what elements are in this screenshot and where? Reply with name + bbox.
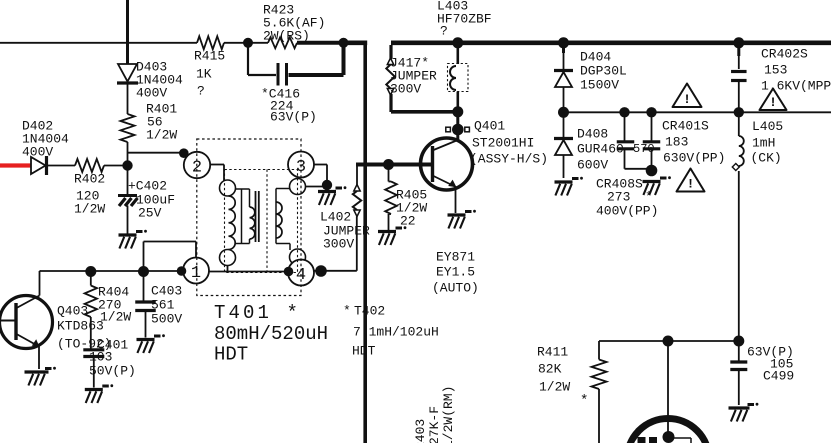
svg-text:HDT: HDT <box>214 344 248 366</box>
resistor R415 <box>194 36 225 98</box>
svg-text:R411: R411 <box>537 345 568 360</box>
wire node to C402 <box>127 166 129 196</box>
wire thick vertical bus <box>363 41 367 443</box>
svg-text:DGP30L: DGP30L <box>580 64 627 79</box>
jumper J417 <box>386 45 437 112</box>
label T402 <box>343 304 439 359</box>
svg-text:400V: 400V <box>136 86 167 101</box>
warning triangle 2 <box>760 89 787 111</box>
wire pin2 to winding <box>210 165 224 182</box>
svg-text:1/2W: 1/2W <box>74 202 105 217</box>
wire R401 to node <box>127 142 129 166</box>
node CR401S top <box>646 107 656 117</box>
svg-text:1K: 1K <box>196 67 212 82</box>
svg-text:EY1.5: EY1.5 <box>436 265 475 280</box>
capacitor CR401S <box>643 112 726 168</box>
diode D403 <box>117 60 183 101</box>
label 570 <box>633 142 655 156</box>
svg-text:Q401: Q401 <box>474 119 505 134</box>
node R404 junction <box>85 266 96 277</box>
wire thick vertical top <box>126 0 129 64</box>
T401 inner dashed box <box>225 170 298 273</box>
node L403 top <box>452 37 463 48</box>
T401 winding circle top-right <box>290 179 306 195</box>
capacitor C499 <box>730 341 794 405</box>
wire collector link <box>456 112 459 125</box>
T401 winding circle bottom-left <box>220 250 236 266</box>
node R423-C416 right <box>339 38 349 48</box>
capacitor C402 (polarized) <box>118 179 175 221</box>
wire pin1 to pin4 <box>209 271 289 273</box>
svg-text:630V(PP): 630V(PP) <box>663 151 725 166</box>
warning triangle 3 <box>677 169 705 192</box>
wire R415 to node <box>224 42 248 44</box>
resistor R411 <box>537 341 607 443</box>
node pin4 right junction <box>315 265 327 277</box>
ground C499 <box>729 403 759 422</box>
svg-text:103: 103 <box>89 350 112 365</box>
node CR408S top <box>619 107 629 117</box>
svg-text:ST2001HI: ST2001HI <box>472 136 534 151</box>
node CRT top <box>663 336 674 347</box>
svg-text:300V: 300V <box>323 237 354 252</box>
svg-text:(CK): (CK) <box>751 151 782 166</box>
svg-text:L402: L402 <box>320 210 351 225</box>
svg-text:R402: R402 <box>74 172 105 187</box>
ground C401 <box>85 384 113 403</box>
T401 terminal circle 4 <box>288 260 314 286</box>
ground C403 <box>137 334 165 353</box>
node D402-C402 junction <box>122 160 132 170</box>
svg-text:50V(P): 50V(P) <box>89 364 136 379</box>
label T401 <box>214 302 328 366</box>
node D408 top <box>558 107 569 118</box>
ground T401 pin3 <box>318 186 346 205</box>
wire Q401 emitter <box>455 188 457 213</box>
T401 outer dashed box <box>197 139 301 296</box>
svg-text:1500V: 1500V <box>580 78 619 93</box>
wire R402 to node <box>104 165 128 167</box>
svg-text:1/2W(RM): 1/2W(RM) <box>441 386 456 443</box>
ground C402 <box>119 230 147 249</box>
wire AC input (red) <box>0 163 32 167</box>
resistor R405 <box>385 165 427 231</box>
node CR402S top <box>733 37 744 48</box>
svg-text:1mH: 1mH <box>752 136 775 151</box>
wire D403 to R401 <box>127 81 129 114</box>
svg-text:+C402: +C402 <box>128 179 167 194</box>
svg-text:!: ! <box>683 92 691 107</box>
svg-text:Q403: Q403 <box>57 304 88 319</box>
inductor L405 <box>739 112 783 166</box>
svg-text:561: 561 <box>151 298 175 313</box>
svg-text:KTD863: KTD863 <box>57 319 104 334</box>
wire to T401 pin2 <box>128 152 184 154</box>
node pin3 ground junction <box>322 180 332 190</box>
svg-text:600V: 600V <box>577 158 608 173</box>
svg-text:1/2W: 1/2W <box>100 310 131 325</box>
wire Q403 emitter <box>38 347 40 370</box>
resistor R404 <box>85 271 132 325</box>
svg-text:25V: 25V <box>138 206 162 221</box>
wire Q403 collector <box>40 271 41 296</box>
node D404 top <box>558 37 569 48</box>
svg-text:R403: R403 <box>413 419 428 443</box>
ground CR401S <box>643 176 671 195</box>
T401 terminal circle 1 <box>183 258 209 284</box>
svg-text:D404: D404 <box>580 50 611 65</box>
svg-text:1/2W: 1/2W <box>146 128 177 143</box>
svg-text:27K-F: 27K-F <box>427 406 442 443</box>
svg-text:!: ! <box>687 177 695 192</box>
node T401 pin4 terminal <box>284 267 294 277</box>
wire bottom rail <box>599 340 739 342</box>
ground R405 <box>378 226 406 245</box>
svg-text:63V(P): 63V(P) <box>270 110 317 125</box>
node L405 top <box>734 107 744 117</box>
wire winding to pin1 rail <box>227 266 229 272</box>
resistor R402 <box>74 159 105 217</box>
diode D402 <box>22 119 69 175</box>
svg-text:1/2W: 1/2W <box>539 380 570 395</box>
node R405 junction <box>383 159 394 170</box>
svg-text:22: 22 <box>400 214 416 229</box>
capacitor CR408S <box>596 112 658 218</box>
svg-text:(ASSY-H/S): (ASSY-H/S) <box>470 152 548 167</box>
transistor Q401 <box>421 119 549 190</box>
wire J417 bottom rail <box>391 110 458 114</box>
node T401 pin2 terminal <box>179 148 189 158</box>
ground Q403 <box>25 367 56 386</box>
wire C401 to ground <box>93 357 95 388</box>
svg-text:183: 183 <box>665 135 688 150</box>
wire R404 to C401 <box>90 317 92 349</box>
transistor Q403 <box>0 296 112 352</box>
capacitor C401 <box>83 338 136 379</box>
wire D404 to mid rail <box>563 87 565 112</box>
svg-text:C403: C403 <box>151 284 182 299</box>
warning triangle 1 <box>673 84 702 108</box>
svg-text:80mH/520uH: 80mH/520uH <box>214 323 328 345</box>
diode D404 <box>554 43 627 93</box>
svg-text:?: ? <box>440 24 448 39</box>
wire node to bus corner <box>344 40 368 45</box>
T401 terminal circle 2 <box>184 152 210 178</box>
svg-text:2W(RS): 2W(RS) <box>263 29 310 44</box>
wire C402 to ground <box>127 206 129 234</box>
svg-text:CR401S: CR401S <box>662 119 709 134</box>
svg-text:400V(PP): 400V(PP) <box>596 204 658 219</box>
inductor L403 <box>437 0 492 107</box>
svg-text:*: * <box>580 393 588 409</box>
svg-text:1: 1 <box>191 264 201 283</box>
wire mid rail <box>564 111 831 113</box>
node CR401S bottom <box>646 165 658 177</box>
jumper L402 <box>320 185 370 252</box>
capacitor C403 <box>135 271 182 327</box>
svg-text:HDT: HDT <box>352 344 376 359</box>
svg-text:7.1mH/102uH: 7.1mH/102uH <box>353 325 439 340</box>
node R423-C416 left <box>243 38 253 48</box>
svg-text:!: ! <box>769 95 777 110</box>
wire pin4 to L402 <box>313 217 357 271</box>
node T401 pin1 terminal <box>177 266 187 276</box>
node C499 top <box>733 336 744 347</box>
label EY871 <box>432 250 479 296</box>
svg-text:300V: 300V <box>390 82 421 97</box>
svg-text:*: * <box>343 304 351 319</box>
capacitor C416 <box>248 43 344 125</box>
svg-text:500V: 500V <box>151 312 182 327</box>
wire D408 to ground <box>563 155 565 178</box>
svg-text:R415: R415 <box>194 49 225 64</box>
T401 secondary winding <box>276 189 290 251</box>
wire L405 down <box>738 171 740 341</box>
wire Q401 base rail <box>356 163 432 167</box>
svg-text:EY871: EY871 <box>436 250 475 265</box>
ground D408 <box>555 177 583 196</box>
T401 core <box>256 191 259 242</box>
svg-text:*: * <box>645 190 653 205</box>
node C403 junction <box>138 266 149 277</box>
resistor R401 <box>121 102 178 143</box>
wire top horizontal rail <box>0 42 197 44</box>
ground Q401 <box>448 210 476 229</box>
svg-text:153: 153 <box>764 63 787 78</box>
CRT tube <box>627 419 709 443</box>
svg-text:273: 273 <box>607 190 630 205</box>
diode D408 <box>554 112 624 172</box>
wire L402 to base rail <box>356 165 358 185</box>
node Q401 collector junction <box>452 106 463 117</box>
wire D402 to R402 <box>47 165 75 167</box>
wire top bus right <box>391 40 831 45</box>
wire C403 to ground <box>145 311 147 338</box>
svg-text:CR402S: CR402S <box>761 47 808 62</box>
connector Q401 collector <box>446 124 470 140</box>
resistor R423 <box>248 3 344 49</box>
svg-text:(AUTO): (AUTO) <box>432 281 479 296</box>
capacitor CR402S <box>731 43 831 113</box>
svg-text:C499: C499 <box>763 369 794 384</box>
T401 winding circle bottom-right <box>290 249 306 265</box>
L405 polarity mark <box>732 164 739 171</box>
wire CRT anode <box>667 341 669 437</box>
wire C403 top jog to pin1 <box>144 242 197 272</box>
wire collector rail <box>40 270 184 272</box>
T401 primary winding <box>229 196 236 250</box>
T401 terminal circle 3 <box>288 152 314 178</box>
svg-text:?: ? <box>197 84 205 99</box>
svg-text:D408: D408 <box>577 127 608 142</box>
svg-text:400V: 400V <box>22 145 53 160</box>
T401 inner winding <box>236 189 255 244</box>
svg-text:T401 *: T401 * <box>214 302 301 324</box>
wire winding tr to ground <box>306 186 328 188</box>
T401 winding circle top-left <box>220 180 236 196</box>
label R403 (rotated) <box>413 386 456 443</box>
svg-text:T402: T402 <box>354 304 385 319</box>
wire pin3 to ground <box>314 165 327 187</box>
svg-text:82K: 82K <box>538 362 562 377</box>
svg-text:L405: L405 <box>752 119 783 134</box>
